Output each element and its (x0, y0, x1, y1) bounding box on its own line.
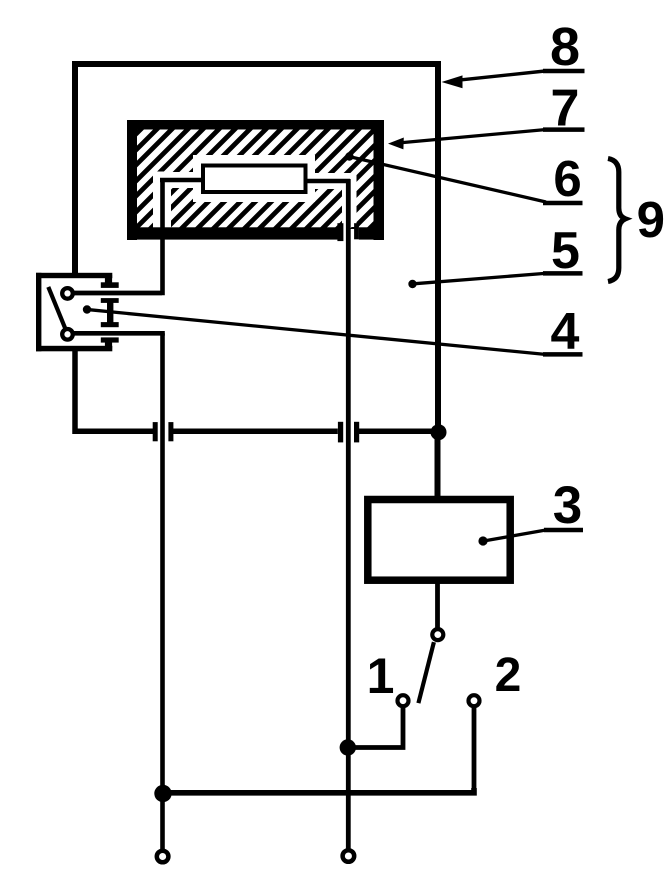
lamp housing 7 border: top (127, 120, 384, 130)
lamp left lead down to switch wire (74, 178, 163, 293)
svg-text:2: 2 (495, 649, 522, 702)
wire bottom horizontal right segment (359, 429, 438, 435)
wire from node into box 3 (435, 432, 441, 499)
switch 4 box left edge (36, 273, 41, 352)
switch 4 middle terminal bottom crossbar (101, 322, 119, 327)
bottom bus wire (163, 788, 475, 793)
filament support stub right (305, 179, 350, 184)
lamp housing 7 border: left (127, 120, 137, 240)
switch 4 box top edge (36, 273, 112, 278)
junction node on right lead (340, 739, 356, 755)
label 7 underline (543, 127, 585, 132)
selector contact 2 circle (469, 695, 480, 706)
connector bars at hatch bottom right lead (337, 223, 343, 241)
lamp housing 7 border: bottom left part (127, 227, 338, 239)
label 6 underline (543, 201, 583, 206)
switch 4 lever (48, 287, 66, 330)
switch 4 moving contact circle (bottom) (62, 329, 73, 340)
svg-text:6: 6 (553, 150, 581, 207)
wire from contact 2 down (472, 708, 477, 790)
switch 4 box bottom edge (36, 346, 112, 352)
wire from box 3 down to selector common (435, 580, 440, 633)
svg-text:1: 1 (367, 648, 395, 704)
connector pair left (bars flanking left lead) (153, 422, 158, 441)
wire bottom horizontal mid segment (173, 429, 338, 435)
label 6 leader dot (345, 152, 353, 160)
switch 4 middle terminal top crossbar (101, 298, 119, 303)
white clearance right stub (315, 173, 342, 189)
selector lever (418, 642, 434, 703)
switch 4 wire from bottom contact (74, 331, 165, 336)
lamp right lead full vertical (346, 179, 351, 855)
svg-text:8: 8 (550, 17, 580, 77)
long left vertical wire to terminal (160, 333, 165, 856)
svg-text:9: 9 (637, 191, 665, 248)
switch 4 top terminal crossbar (101, 282, 119, 288)
label 5 underline (543, 271, 583, 276)
terminal circle right (343, 850, 355, 862)
white clearance left stub (153, 172, 194, 188)
housing 8 left edge upper (72, 62, 78, 276)
brace for 9 (608, 159, 625, 282)
svg-text:3: 3 (553, 476, 582, 535)
selector contact 1 circle (398, 695, 409, 706)
svg-text:5: 5 (551, 222, 580, 280)
label 3 leader (485, 530, 546, 541)
terminal circle left (157, 851, 169, 863)
housing 8 top edge (72, 61, 441, 67)
switch 4 bottom terminal crossbar (101, 337, 119, 342)
switch 4 bottom terminal stub (105, 342, 112, 349)
wire from contact 1 to right lead (348, 708, 403, 748)
label 3 underline (544, 528, 583, 533)
filament rect 6 (203, 166, 306, 193)
label 6 leader (351, 157, 546, 202)
label 7 leader (398, 130, 545, 143)
housing 8 left edge lower (75, 349, 153, 431)
junction node bottom left (154, 785, 171, 802)
label 4 leader (89, 310, 545, 355)
switch 4 middle terminal vertical (107, 300, 113, 325)
switch 4 fixed contact circle (top) (62, 288, 73, 299)
label 4 underline (543, 352, 583, 357)
svg-text:4: 4 (551, 303, 580, 361)
switch 4 top terminal stub (105, 275, 112, 283)
white clearance around left lead in hatch (153, 172, 171, 228)
junction node at right edge / wire (431, 424, 447, 440)
filament support stub left (160, 178, 204, 183)
white clearance around filament rect (193, 155, 315, 202)
connector pair right (bars flanking right lead) (338, 422, 343, 443)
white clearance around right lead in hatch (342, 173, 357, 227)
lamp housing 7 border: right (374, 120, 385, 240)
lamp housing 7 border: bottom right part (359, 227, 384, 239)
selector common contact circle (432, 629, 443, 640)
label 4 leader dot (83, 305, 91, 313)
housing 8 right edge (435, 62, 441, 435)
switch 4 wire from top contact to lamp lead (74, 291, 162, 296)
label 5 leader (415, 273, 545, 283)
svg-text:7: 7 (551, 80, 580, 138)
label 8 leader (452, 71, 545, 81)
label 7 arrowhead (388, 138, 404, 150)
lamp housing 7 hatched box: hatching (38, 127, 471, 232)
ballast box 3 (368, 500, 510, 581)
label 8 arrowhead (442, 75, 463, 88)
label 8 underline (543, 69, 585, 74)
label 3 leader dot (478, 536, 487, 545)
label 5 leader dot (408, 280, 416, 288)
